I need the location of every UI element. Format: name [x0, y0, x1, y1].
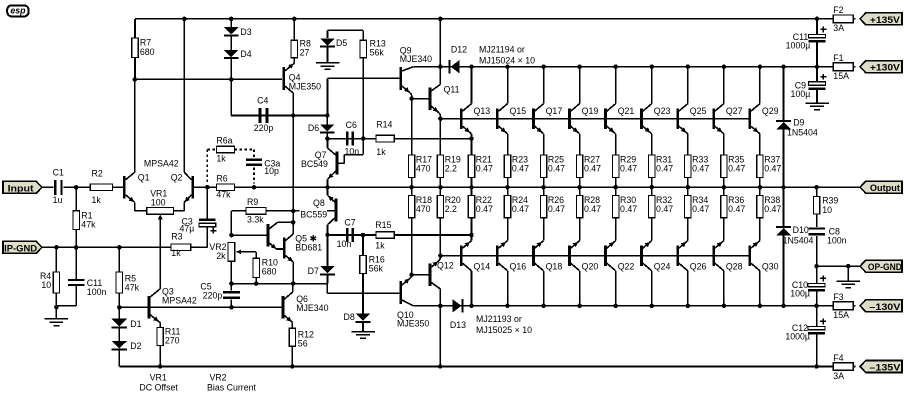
fuse F1 — [831, 53, 855, 81]
svg-text:1N5404: 1N5404 — [783, 236, 814, 246]
svg-text:Q17: Q17 — [546, 106, 563, 116]
resistor R31 — [649, 139, 674, 188]
transistor Q18 — [532, 235, 562, 306]
svg-text:MJE350: MJE350 — [289, 81, 321, 91]
resistor R19 — [437, 119, 461, 188]
svg-text:100µ: 100µ — [790, 289, 810, 299]
node output rail col8 — [722, 185, 727, 190]
node top rail R8 — [292, 17, 297, 22]
trimpot VR2 — [209, 242, 256, 261]
svg-text:1u: 1u — [53, 195, 63, 205]
svg-text:0.47: 0.47 — [476, 164, 493, 174]
svg-text:D8: D8 — [344, 312, 355, 322]
svg-text:Q25: Q25 — [690, 106, 707, 116]
svg-text:0.47: 0.47 — [584, 164, 601, 174]
svg-text:10p: 10p — [264, 166, 279, 176]
node Q4 collector — [291, 113, 296, 118]
capacitor C6 — [344, 120, 359, 156]
label MPSA42 input pair — [144, 159, 179, 169]
wire C7-R15 line — [327, 234, 471, 236]
svg-text:0.47: 0.47 — [728, 164, 745, 174]
ground D8 — [351, 332, 375, 339]
svg-text:R2: R2 — [92, 168, 103, 178]
svg-text:D5: D5 — [336, 38, 347, 48]
transistor Q13 — [460, 67, 490, 139]
svg-text:BC549: BC549 — [301, 159, 328, 169]
node -130 C10 — [814, 304, 819, 309]
capacitor C5 — [200, 282, 240, 308]
wire R9 to Q8 base — [231, 210, 335, 212]
svg-text:1000µ: 1000µ — [785, 332, 810, 342]
svg-text:100n: 100n — [87, 287, 107, 297]
resistor R22 — [468, 187, 493, 235]
node Q12 emitter base rail — [438, 253, 443, 258]
node emitter Q17 — [543, 138, 545, 140]
svg-text:–130V: –130V — [869, 301, 901, 312]
transistor Q24 — [640, 235, 670, 306]
svg-text:15A: 15A — [833, 310, 849, 320]
node output rail col4 — [577, 185, 582, 190]
node C7 tap — [325, 233, 330, 238]
resistor R7 — [132, 19, 155, 80]
svg-text:F4: F4 — [833, 353, 843, 363]
svg-text:2k: 2k — [216, 251, 226, 261]
wire C4 line — [231, 79, 327, 115]
transistor Q5b — [283, 233, 322, 283]
wire top rail to D12 — [439, 19, 441, 67]
node emitter Q23 — [651, 138, 653, 140]
diode D5 — [320, 30, 347, 63]
transistor Q2 — [171, 19, 208, 211]
svg-text:Q23: Q23 — [654, 106, 671, 116]
resistor R8 — [291, 19, 311, 58]
node output rail col5 — [613, 185, 618, 190]
svg-text:Q12: Q12 — [437, 261, 454, 271]
capacitor C10 — [790, 266, 826, 306]
svg-text:+135V: +135V — [870, 14, 901, 25]
resistor R4 — [40, 247, 60, 307]
svg-text:3A: 3A — [833, 23, 844, 33]
transistor Q23 — [640, 67, 670, 139]
resistor R3 — [171, 232, 191, 258]
svg-text:MJ15024 × 10: MJ15024 × 10 — [479, 56, 535, 66]
node -130 col4 — [577, 304, 582, 309]
node ipgnd-R1-C11 — [74, 245, 79, 250]
wire +130V rail — [413, 66, 833, 68]
wire Q5 base — [231, 234, 266, 236]
node -130 col2 — [505, 304, 510, 309]
svg-text:R9: R9 — [247, 197, 258, 207]
node emitter Q15 — [507, 138, 509, 140]
node D6 C6 — [325, 136, 330, 141]
node -130 D10 — [781, 304, 786, 309]
svg-text:VR2: VR2 — [209, 372, 226, 382]
transistor Q28 — [712, 235, 742, 306]
terminal -135V — [860, 361, 902, 373]
trimpot VR1 — [147, 189, 174, 289]
node +130 col3 — [541, 64, 546, 69]
node R17 output rail — [409, 185, 414, 190]
svg-text:BC559: BC559 — [300, 210, 327, 220]
svg-text:0.47: 0.47 — [512, 204, 529, 214]
terminal +130V — [860, 61, 902, 73]
terminal -130V — [860, 300, 902, 312]
capacitor C9 — [791, 67, 827, 103]
node +130 col8 — [722, 64, 727, 69]
svg-text:0.47: 0.47 — [584, 204, 601, 214]
svg-text:Q8: Q8 — [313, 198, 325, 208]
resistor R33 — [685, 139, 710, 188]
wire Q11 base — [412, 98, 429, 100]
terminal Input — [3, 181, 42, 193]
svg-text:MJE340: MJE340 — [400, 54, 432, 64]
node -130 col6 — [650, 304, 655, 309]
node +130 D12 left — [438, 64, 443, 69]
node R11 -135V — [158, 364, 163, 369]
svg-text:Q26: Q26 — [690, 261, 707, 271]
node emitter Q25 — [687, 138, 689, 140]
resistor R6a dashed branch — [207, 135, 254, 183]
svg-text:100n: 100n — [827, 236, 847, 246]
svg-text:0.47: 0.47 — [620, 204, 637, 214]
resistor R24 — [504, 187, 529, 235]
node +130 col2 — [505, 64, 510, 69]
terminal OP-GND — [860, 260, 902, 272]
svg-text:–135V: –135V — [869, 362, 901, 373]
svg-text:47k: 47k — [125, 283, 140, 293]
transistor Q27 — [712, 67, 742, 139]
diode D13 — [450, 299, 466, 330]
resistor R2 — [90, 168, 112, 205]
svg-text:0.47: 0.47 — [692, 164, 709, 174]
svg-text:470: 470 — [416, 204, 431, 214]
svg-text:680: 680 — [140, 47, 155, 57]
wire Q3-Q6 base line — [119, 306, 281, 308]
wire -130 to -135 — [439, 306, 441, 367]
svg-text:10n: 10n — [337, 239, 352, 249]
node -130 col8 — [722, 304, 727, 309]
diode D12 — [449, 45, 468, 74]
wire OP-GND — [817, 265, 860, 267]
transistor Q26 — [676, 235, 706, 306]
resistor R12 — [289, 322, 314, 366]
svg-text:MJE340: MJE340 — [296, 303, 328, 313]
svg-text:0.47: 0.47 — [764, 164, 781, 174]
node output rail col9 — [758, 185, 763, 190]
wire IP-GND line — [42, 227, 207, 248]
svg-text:100: 100 — [151, 197, 166, 207]
wire +135V top rail — [135, 18, 833, 20]
svg-text:D4: D4 — [240, 49, 251, 59]
node R19 output rail — [438, 185, 443, 190]
node -130 col7 — [686, 304, 691, 309]
svg-text:F3: F3 — [833, 292, 843, 302]
resistor R16 — [360, 235, 385, 314]
capacitor C1 — [53, 168, 64, 205]
node top rail Q2 collector — [182, 17, 187, 22]
node output D9 D10 — [781, 185, 786, 190]
diode D1 — [112, 307, 142, 329]
resistor R36 — [721, 187, 746, 235]
wire VAS bias bottom line C5 — [231, 283, 327, 285]
diode D2 — [112, 328, 142, 366]
node emitter Q21 — [615, 138, 617, 140]
svg-text:F2: F2 — [833, 5, 843, 15]
svg-text:47k: 47k — [81, 219, 96, 229]
resistor R15 — [375, 220, 394, 250]
label Q8 BC559 — [300, 198, 328, 220]
svg-text:BD681: BD681 — [295, 243, 322, 253]
svg-text:D10: D10 — [793, 225, 809, 235]
node VR2 bottom — [229, 261, 234, 286]
node +130 C9 — [815, 64, 820, 69]
svg-text:270: 270 — [165, 336, 180, 346]
svg-text:esp: esp — [10, 6, 26, 16]
node ipgnd-R4 — [54, 245, 59, 250]
wire C6-R14 line — [327, 138, 471, 140]
svg-text:Q21: Q21 — [618, 106, 635, 116]
node output rail col6 — [650, 185, 655, 190]
svg-text:Output: Output — [870, 182, 900, 193]
wire R7/D4 to Q4 base — [135, 78, 282, 80]
svg-text:DC Offset: DC Offset — [139, 382, 178, 392]
svg-text:MPSA42: MPSA42 — [162, 295, 197, 305]
node D4 bottom — [229, 77, 234, 82]
resistor R32 — [649, 187, 674, 235]
capacitor C8 — [808, 214, 846, 266]
node -130 D13 left — [438, 304, 443, 309]
wire Q10 base jog — [327, 284, 399, 294]
svg-text:C1: C1 — [53, 168, 64, 178]
svg-text:Q27: Q27 — [726, 106, 743, 116]
node top rail D3 — [229, 17, 234, 22]
svg-text:Q1: Q1 — [138, 173, 150, 183]
svg-text:Q18: Q18 — [546, 261, 563, 271]
diode D7 — [308, 235, 335, 284]
resistor R11 — [157, 323, 181, 367]
node ipgnd-R5 — [117, 245, 122, 250]
svg-text:1k: 1k — [171, 248, 181, 258]
svg-text:R14: R14 — [376, 120, 392, 130]
svg-text:MJ15025 × 10: MJ15025 × 10 — [476, 325, 532, 335]
node +130 D9 — [781, 64, 786, 69]
diode D8 — [344, 312, 371, 331]
node Q5 emitter Q6 collector — [291, 281, 296, 286]
svg-text:Q24: Q24 — [654, 261, 671, 271]
svg-text:1k: 1k — [375, 240, 385, 250]
svg-text:C6: C6 — [346, 120, 357, 130]
resistor R6 — [216, 173, 234, 199]
node -130 col5 — [613, 304, 618, 309]
svg-text:MJE350: MJE350 — [397, 319, 429, 329]
capacitor C12 — [785, 306, 826, 367]
svg-text:D7: D7 — [308, 266, 319, 276]
svg-text:R6: R6 — [216, 173, 227, 183]
svg-text:OP-GND: OP-GND — [868, 261, 902, 272]
transistor Q20 — [568, 235, 598, 306]
svg-text:C4: C4 — [257, 95, 268, 105]
ground C9 — [805, 103, 829, 110]
node top rail D12 — [438, 17, 443, 22]
transistor Q16 — [496, 235, 526, 306]
node +130 col5 — [613, 64, 618, 69]
node Q11 emitter base rail — [438, 116, 443, 121]
transistor Q8 — [328, 187, 338, 235]
svg-text:2.2: 2.2 — [445, 164, 457, 174]
wire Q5 collectors — [292, 211, 294, 234]
resistor R26 — [540, 187, 565, 235]
svg-text:C7: C7 — [344, 217, 355, 227]
transistor Q30 — [748, 235, 778, 306]
label MJ21193 — [476, 314, 532, 335]
svg-text:R15: R15 — [375, 220, 391, 230]
node R15 line Q14 emitter — [469, 233, 474, 238]
node input-R1 — [74, 185, 79, 190]
svg-text:0.47: 0.47 — [548, 164, 565, 174]
transistor Q12 — [429, 256, 454, 306]
node R14 line Q13 emitter — [469, 136, 474, 141]
node output rail col3 — [541, 185, 546, 190]
resistor R9 — [231, 197, 266, 235]
node emitter Q29 — [759, 138, 761, 140]
diode D10 — [776, 187, 814, 306]
svg-text:10: 10 — [41, 280, 51, 290]
resistor R17 — [408, 99, 432, 188]
diode D9 — [776, 67, 818, 188]
svg-text:D3: D3 — [240, 27, 251, 37]
resistor R5 — [116, 247, 139, 307]
terminal IP-GND — [3, 241, 42, 253]
node Q10 emitter Q12 base — [409, 273, 414, 278]
svg-text:Q2: Q2 — [171, 173, 183, 183]
fuse F3 — [831, 292, 855, 320]
node VR2 top — [229, 233, 234, 238]
fuse F4 — [831, 353, 855, 381]
svg-text:0.47: 0.47 — [656, 204, 673, 214]
terminal Output — [860, 181, 902, 193]
svg-text:D6: D6 — [308, 123, 319, 133]
resistor R28 — [576, 187, 601, 235]
node output rail col1 — [469, 185, 474, 190]
label VR1 DC Offset — [139, 372, 178, 392]
svg-text:0.47: 0.47 — [512, 164, 529, 174]
svg-text:0.47: 0.47 — [764, 204, 781, 214]
svg-text:0.47: 0.47 — [656, 164, 673, 174]
node Q9 emitter Q11 base — [409, 96, 414, 101]
node -130 -135 link — [438, 364, 443, 369]
wire output rail — [207, 186, 860, 188]
svg-text:0.47: 0.47 — [728, 204, 745, 214]
svg-text:3.3k: 3.3k — [247, 214, 264, 224]
transistor Q4 — [282, 58, 321, 116]
node R12 -135V — [290, 364, 295, 369]
transistor Q5 darlington BD681 — [267, 220, 296, 249]
transistor Q9 — [399, 45, 432, 98]
node output R39 — [814, 185, 819, 190]
node R10 bottom — [254, 281, 259, 286]
resistor R20 — [437, 187, 461, 256]
capacitor C11 100n — [56, 247, 106, 306]
transistor Q1 — [123, 79, 150, 210]
svg-text:VR1: VR1 — [150, 372, 167, 382]
node C4 D6 — [325, 113, 330, 118]
wire -130V rail — [413, 305, 833, 307]
svg-text:Q30: Q30 — [762, 261, 779, 271]
resistor R23 — [504, 139, 529, 188]
resistor R38 — [757, 187, 782, 235]
svg-text:1k: 1k — [376, 147, 386, 157]
node R7 bottom — [133, 77, 138, 82]
wire bottom bases rail — [440, 255, 750, 257]
node Q2 base — [205, 185, 210, 190]
node C8 C10 opgnd — [814, 264, 819, 269]
svg-text:D2: D2 — [130, 341, 141, 351]
svg-text:R3: R3 — [171, 232, 182, 242]
transistor Q11 — [429, 67, 460, 119]
wire input line — [42, 186, 123, 188]
svg-text:56k: 56k — [370, 48, 385, 58]
svg-text:D12: D12 — [451, 45, 467, 55]
ground OP-GND — [837, 266, 861, 287]
diode D4 — [224, 36, 252, 79]
transistor Q6 — [282, 284, 329, 323]
node opgnd ground — [846, 264, 851, 269]
svg-text:27: 27 — [300, 48, 310, 58]
svg-text:Bias Current: Bias Current — [207, 382, 256, 392]
svg-text:R6a: R6a — [216, 135, 232, 145]
svg-text:Q16: Q16 — [510, 261, 527, 271]
svg-text:Q28: Q28 — [726, 261, 743, 271]
node gnd-left — [54, 305, 59, 310]
resistor R10 — [253, 252, 278, 284]
svg-text:D1: D1 — [130, 319, 141, 329]
node Q3 base — [117, 305, 122, 310]
resistor R29 — [613, 139, 638, 188]
svg-text:F1: F1 — [833, 53, 843, 63]
transistor Q29 — [748, 67, 778, 139]
capacitor C3 — [179, 187, 216, 233]
node top rail C11 — [815, 17, 820, 22]
node +130 col6 — [650, 64, 655, 69]
resistor R18 — [408, 187, 432, 275]
svg-text:56k: 56k — [369, 264, 384, 274]
transistor Q19 — [568, 67, 598, 139]
wire top bases rail — [440, 118, 750, 120]
svg-text:220p: 220p — [254, 123, 274, 133]
node +130 col7 — [686, 64, 691, 69]
label VR2 Bias Current — [207, 372, 256, 392]
resistor R1 — [73, 187, 96, 247]
transistor Q25 — [676, 67, 706, 139]
transistor Q14 — [460, 235, 490, 306]
resistor R25 — [540, 139, 565, 188]
svg-text:56: 56 — [298, 339, 308, 349]
svg-text:Q19: Q19 — [582, 106, 599, 116]
svg-text:Q22: Q22 — [618, 261, 635, 271]
resistor R39 — [813, 187, 838, 215]
node -135 C12 — [814, 364, 819, 369]
svg-text:100µ: 100µ — [791, 89, 811, 99]
svg-text:0.47: 0.47 — [692, 204, 709, 214]
resistor R14 — [376, 120, 394, 157]
svg-text:D9: D9 — [793, 118, 804, 128]
resistor R35 — [721, 139, 746, 188]
svg-text:3A: 3A — [833, 371, 844, 381]
label MJ21194 — [479, 45, 535, 66]
capacitor C7 — [337, 217, 356, 249]
ESP logo — [7, 5, 28, 16]
node C5 bottom — [229, 305, 234, 310]
